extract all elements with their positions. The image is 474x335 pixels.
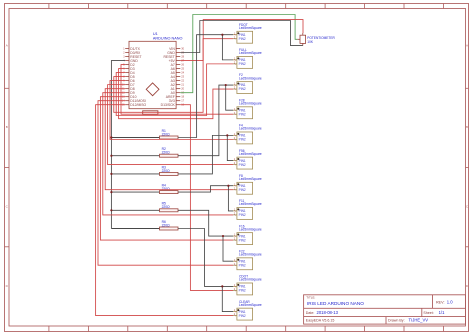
wire D11 to F22 PIN2 — [98, 101, 233, 266]
svg-text:10K: 10K — [307, 40, 314, 44]
svg-text:Sheet:: Sheet: — [423, 311, 433, 315]
svg-text:›: › — [235, 112, 236, 116]
LED CDOT Led5mmSquare — [233, 275, 262, 295]
svg-text:Date:: Date: — [306, 311, 315, 315]
svg-text:PIN2: PIN2 — [239, 62, 246, 66]
wire D6 to F4 PIN2 — [110, 81, 233, 140]
junction R6 branch — [221, 285, 223, 287]
svg-text:›: › — [235, 314, 236, 318]
wire D2 to F28 PIN2 — [121, 65, 233, 115]
svg-text:PIN2: PIN2 — [239, 163, 246, 167]
wire R6 to LED pair PIN1 — [178, 229, 233, 287]
svg-text:1/1: 1/1 — [439, 310, 445, 315]
svg-text:Led5mmSquare: Led5mmSquare — [239, 253, 262, 257]
svg-text:REV:: REV: — [436, 300, 444, 304]
svg-text:IRIS LED ARDUINO NANO: IRIS LED ARDUINO NANO — [307, 301, 364, 306]
wire +5V to potentiometer top (red) — [180, 20, 303, 61]
svg-text:220Ω: 220Ω — [162, 223, 171, 227]
resistor R1 220 ohm — [111, 129, 178, 139]
svg-text:220Ω: 220Ω — [162, 151, 171, 155]
svg-text:PIN2: PIN2 — [239, 138, 246, 142]
svg-text:›: › — [235, 62, 236, 66]
svg-text:›: › — [235, 87, 236, 91]
junction GND rail — [110, 136, 112, 138]
svg-text:›: › — [235, 238, 236, 242]
svg-text:TITLE:: TITLE: — [306, 296, 315, 300]
resistor R2 220 ohm — [111, 147, 178, 157]
svg-text:Led5mmSquare: Led5mmSquare — [239, 278, 262, 282]
svg-text:Led5mmSquare: Led5mmSquare — [239, 227, 262, 231]
LED CLEAR Led5mmSquare — [233, 300, 262, 320]
svg-text:Led5mmSquare: Led5mmSquare — [239, 152, 262, 156]
svg-text:220Ω: 220Ω — [162, 187, 171, 191]
svg-text:220Ω: 220Ω — [162, 205, 171, 209]
wire R4 to LED pair PIN1 — [178, 186, 233, 192]
LED F28 Led5mmSquare — [233, 98, 262, 118]
svg-text:›: › — [235, 263, 236, 267]
wire D5 to FDOT PIN2 — [114, 39, 233, 113]
svg-text:A: A — [6, 44, 8, 48]
wire D3 to F2 PIN2 — [119, 69, 233, 119]
svg-text:Drawn By:: Drawn By: — [388, 319, 405, 323]
wire R1 to LED pair PIN1 — [178, 35, 233, 138]
svg-text:2018-08-13: 2018-08-13 — [317, 310, 339, 315]
wire D13/SCK to CDOT PIN2 — [180, 105, 233, 291]
svg-text:220Ω: 220Ω — [162, 132, 171, 136]
svg-text:›: › — [235, 159, 236, 163]
LED F11 Led5mmSquare — [233, 199, 262, 219]
wire D9 to F11 PIN2 — [103, 93, 233, 215]
svg-text:Led5mmSquare: Led5mmSquare — [239, 102, 262, 106]
svg-text:Led5mmSquare: Led5mmSquare — [239, 51, 262, 55]
resistor R6 220 ohm — [111, 220, 178, 230]
svg-text:›: › — [235, 284, 236, 288]
potentiometer RP1 10K — [297, 33, 335, 46]
wire D8 to F8 PIN2 — [105, 89, 233, 190]
LED F22 Led5mmSquare — [233, 249, 262, 269]
LED F8 Led5mmSquare — [233, 174, 262, 194]
svg-text:Led5mmSquare: Led5mmSquare — [239, 202, 262, 206]
wire D12 to CLEAR PIN2 — [96, 105, 233, 316]
svg-text:›: › — [235, 37, 236, 41]
svg-text:PIN2: PIN2 — [239, 188, 246, 192]
svg-text:Led5mmSquare: Led5mmSquare — [239, 127, 262, 131]
svg-text:›: › — [235, 259, 236, 263]
junction GND rail — [110, 173, 112, 175]
svg-text:›: › — [235, 288, 236, 292]
svg-text:›: › — [235, 310, 236, 314]
svg-text:›: › — [235, 83, 236, 87]
LED FDOT Led5mmSquare — [233, 23, 262, 43]
svg-text:TIJHE_VV: TIJHE_VV — [409, 318, 429, 323]
svg-text:›: › — [235, 108, 236, 112]
svg-text:›: › — [235, 213, 236, 217]
resistor R4 220 ohm — [111, 184, 178, 194]
wire R5 to LED pair PIN1 — [178, 210, 233, 236]
svg-text:220Ω: 220Ω — [162, 169, 171, 173]
svg-text:A: A — [466, 44, 468, 48]
svg-text:PIN2: PIN2 — [239, 37, 246, 41]
svg-text:PIN2: PIN2 — [239, 289, 246, 293]
wire R3 to LED pair PIN1 — [178, 135, 233, 174]
svg-text:›: › — [235, 234, 236, 238]
svg-text:PIN2: PIN2 — [239, 87, 246, 91]
resistor R3 220 ohm — [111, 165, 178, 175]
svg-text:›: › — [235, 133, 236, 137]
LED F56 Led5mmSquare — [233, 149, 262, 169]
resistor R5 220 ohm — [111, 202, 178, 212]
microcontroller U1 ARDUINO NANO — [122, 32, 185, 114]
svg-text:1.0: 1.0 — [447, 299, 453, 304]
svg-text:›: › — [235, 163, 236, 167]
svg-text:›: › — [235, 58, 236, 62]
svg-text:B: B — [466, 125, 468, 129]
svg-text:D13/SCK: D13/SCK — [161, 103, 176, 107]
svg-text:EasyEDA V5.6.15: EasyEDA V5.6.15 — [306, 319, 335, 323]
junction GND rail — [110, 209, 112, 211]
svg-text:›: › — [235, 184, 236, 188]
svg-text:PIN2: PIN2 — [239, 263, 246, 267]
svg-text:PIN2: PIN2 — [239, 314, 246, 318]
junction R5 branch — [222, 235, 224, 237]
wire GND to potentiometer bottom (dark) — [180, 21, 302, 53]
junction R1 branch — [221, 34, 223, 36]
svg-text:›: › — [235, 137, 236, 141]
junction GND rail — [110, 155, 112, 157]
junction R4 branch — [227, 185, 229, 187]
svg-text:Led5mmSquare: Led5mmSquare — [239, 303, 262, 307]
svg-text:PIN2: PIN2 — [239, 238, 246, 242]
svg-text:›: › — [235, 209, 236, 213]
junction R2 branch — [225, 84, 227, 86]
svg-text:PIN2: PIN2 — [239, 213, 246, 217]
svg-text:D12/MISO: D12/MISO — [130, 103, 146, 107]
wire R2 to LED pair PIN1 — [178, 85, 233, 156]
wire A0 to potentiometer wiper (green) — [180, 15, 297, 93]
wire GND rail to resistors — [111, 61, 125, 229]
svg-text:B: B — [6, 125, 8, 129]
svg-text:›: › — [235, 188, 236, 192]
wire D4 to FULL PIN2 — [116, 64, 233, 116]
svg-text:Led5mmSquare: Led5mmSquare — [239, 76, 262, 80]
junction R3 branch — [226, 134, 228, 136]
LED F16 Led5mmSquare — [233, 224, 262, 244]
LED FULL Led5mmSquare — [233, 48, 262, 68]
svg-text:PIN2: PIN2 — [239, 112, 246, 116]
svg-text:Led5mmSquare: Led5mmSquare — [239, 26, 262, 30]
LED F2 Led5mmSquare — [233, 73, 262, 93]
wire D7 to F56 PIN2 — [108, 85, 233, 165]
wire D10 to F16 PIN2 — [100, 97, 233, 240]
junction GND rail — [110, 191, 112, 193]
LED F4 Led5mmSquare — [233, 124, 262, 144]
svg-text:Led5mmSquare: Led5mmSquare — [239, 177, 262, 181]
svg-text:ARDUINO NANO: ARDUINO NANO — [153, 36, 183, 40]
svg-text:›: › — [235, 33, 236, 37]
